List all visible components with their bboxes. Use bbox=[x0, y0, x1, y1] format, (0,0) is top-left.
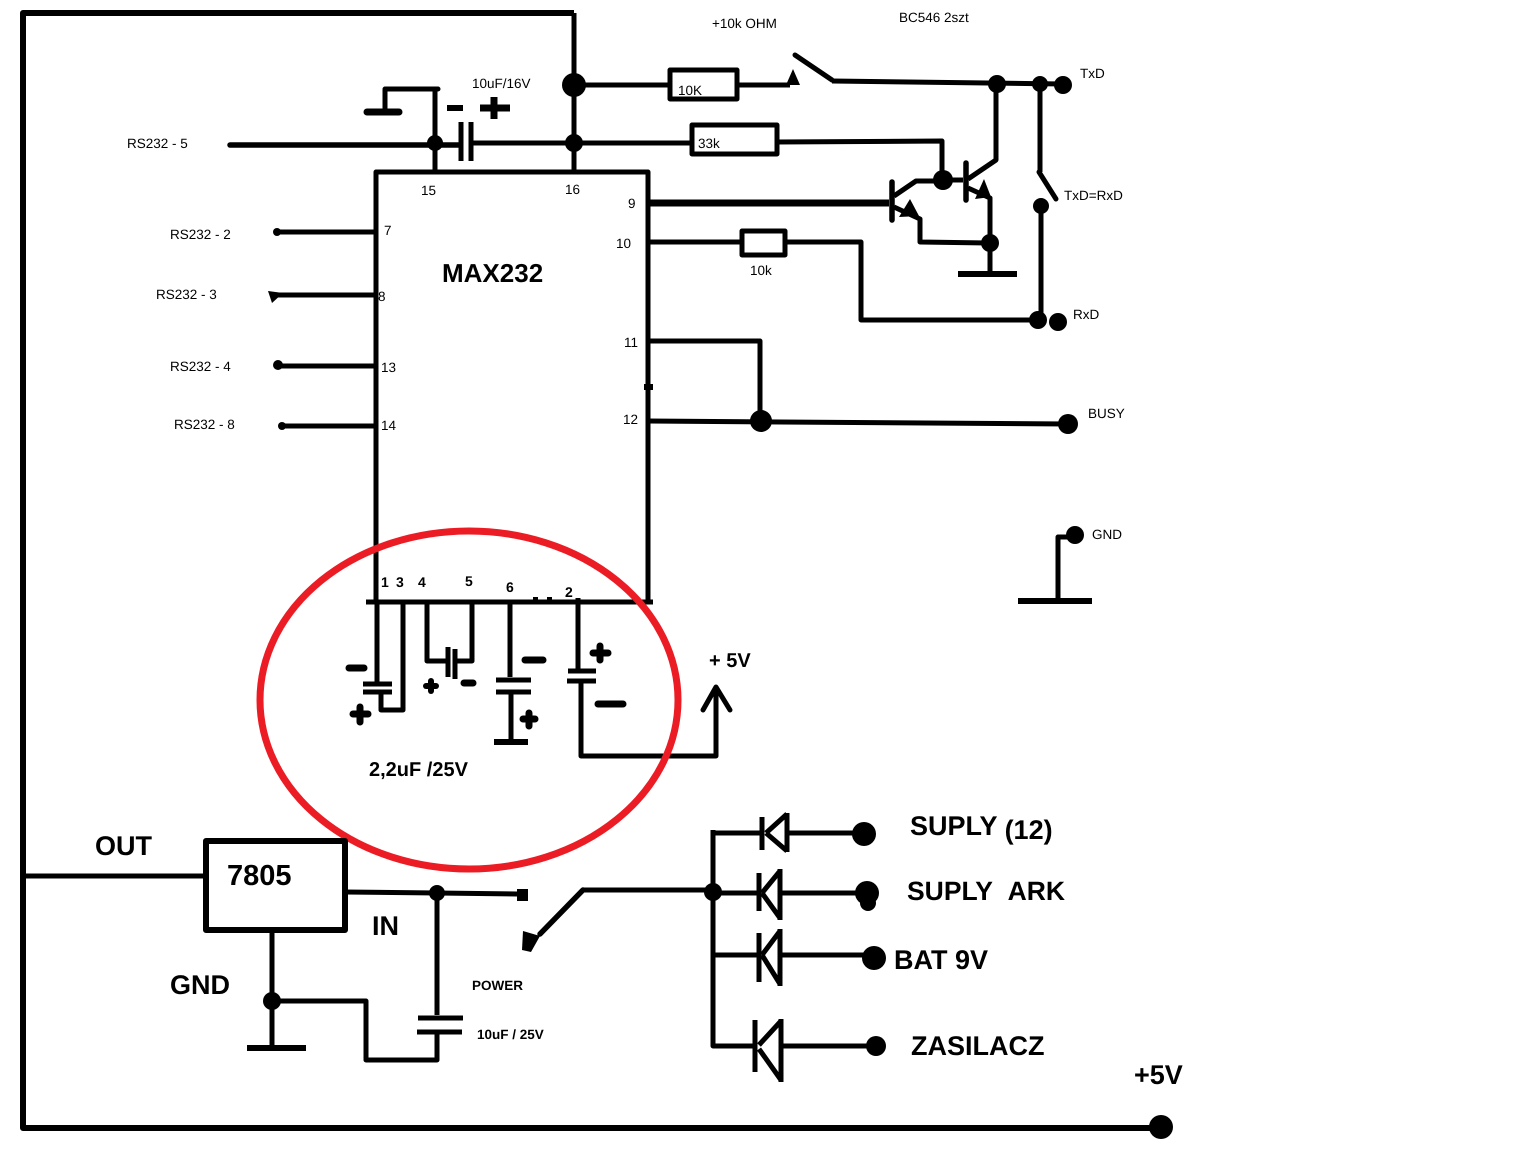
svg-text:14: 14 bbox=[381, 418, 397, 433]
wire border top-left-bottom bbox=[23, 13, 1160, 1128]
svg-text:1: 1 bbox=[381, 574, 389, 590]
wire 33k to Q2 base bbox=[777, 141, 942, 180]
red highlight ellipse bbox=[260, 531, 678, 869]
transistor Q1 BC546 bbox=[892, 181, 988, 243]
node base junction bbox=[933, 170, 953, 190]
svg-text:2: 2 bbox=[565, 584, 573, 600]
wire pin9 to Q1 base bbox=[648, 200, 889, 207]
node diode ladder junction bbox=[704, 883, 722, 901]
svg-text:3: 3 bbox=[396, 574, 404, 590]
svg-text:10: 10 bbox=[616, 236, 631, 251]
svg-text:BAT 9V: BAT 9V bbox=[894, 945, 988, 975]
node SUPLY (12) terminal bbox=[852, 822, 876, 846]
svg-text:+ 5V: + 5V bbox=[709, 650, 751, 672]
svg-text:5: 5 bbox=[465, 573, 473, 589]
transistor Q2 BC546 bbox=[966, 85, 996, 242]
node junction cap right bbox=[565, 134, 583, 152]
diode D4 bbox=[755, 1019, 868, 1082]
capacitor C5 10uF/16V bbox=[447, 76, 531, 161]
+5V arrow bbox=[703, 687, 730, 710]
node pin15 junction bbox=[427, 135, 443, 151]
wire 7805 GND pin bbox=[270, 930, 275, 1048]
svg-text:2,2uF /25V: 2,2uF /25V bbox=[369, 759, 469, 781]
svg-text:10uF/16V: 10uF/16V bbox=[472, 76, 531, 91]
wire pin16 vertical from top border bbox=[572, 13, 577, 171]
svg-text:RS232 - 5: RS232 - 5 bbox=[127, 136, 188, 151]
wire pin12 BUSY bbox=[648, 421, 1068, 424]
svg-text:SUPLY ARK: SUPLY ARK bbox=[907, 876, 1065, 906]
wire pin11 bbox=[648, 341, 760, 421]
ground 7805 bbox=[247, 1045, 306, 1051]
diode D1 bbox=[713, 813, 856, 852]
wire pin8 RS232-3 bbox=[274, 293, 376, 298]
switch S1 arm bbox=[795, 55, 832, 80]
svg-text:BUSY: BUSY bbox=[1088, 406, 1125, 421]
svg-text:16: 16 bbox=[565, 182, 580, 197]
node IN junction bbox=[429, 885, 445, 901]
svg-text:33k: 33k bbox=[698, 136, 720, 151]
svg-text:TxD=RxD: TxD=RxD bbox=[1064, 188, 1123, 203]
resistor R1 10K bbox=[670, 70, 737, 99]
svg-text:8: 8 bbox=[378, 289, 386, 304]
svg-text:9: 9 bbox=[628, 196, 636, 211]
svg-text:RS232 - 8: RS232 - 8 bbox=[174, 417, 235, 432]
svg-text:RS232 - 4: RS232 - 4 bbox=[170, 359, 231, 374]
node emitter junction bbox=[981, 234, 999, 252]
switch S1 contact arrow bbox=[786, 69, 800, 85]
wire base junction to Q2 bbox=[943, 178, 963, 183]
svg-text:IN: IN bbox=[372, 911, 399, 941]
svg-text:GND: GND bbox=[170, 970, 230, 1000]
svg-text:POWER: POWER bbox=[472, 978, 523, 993]
switch jumper top left bbox=[367, 89, 438, 112]
svg-text:4: 4 bbox=[418, 574, 426, 590]
node BUSY terminal bbox=[1058, 414, 1078, 434]
pin stub right edge bbox=[644, 384, 653, 390]
svg-text:BC546 2szt: BC546 2szt bbox=[899, 10, 969, 25]
capacitor C1 2.2uF pins 1-3 bbox=[349, 602, 403, 722]
wire pin13 RS232-4 bbox=[277, 364, 376, 369]
wire RS232-5 to cap bbox=[230, 142, 459, 148]
svg-text:10uF / 25V: 10uF / 25V bbox=[477, 1027, 544, 1042]
diode D2 bbox=[713, 869, 858, 920]
node GND right bbox=[1066, 526, 1084, 544]
switch TxD=RxD bbox=[1033, 85, 1056, 319]
svg-text:10K: 10K bbox=[678, 83, 702, 98]
wire pin10 to 10k bbox=[648, 240, 742, 245]
wire 10K to switch bbox=[737, 83, 790, 88]
resistor R2 33k bbox=[692, 125, 777, 154]
svg-text:GND: GND bbox=[1092, 527, 1122, 542]
svg-text:+5V: +5V bbox=[1134, 1060, 1183, 1090]
svg-text:15: 15 bbox=[421, 183, 436, 198]
node +5V terminal bbox=[1149, 1115, 1173, 1139]
node ZASILACZ terminal bbox=[866, 1036, 886, 1056]
node TxD collector junction bbox=[988, 75, 1006, 93]
svg-text:SUPLY (12): SUPLY (12) bbox=[910, 811, 1053, 845]
ground GND right symbol bbox=[1018, 537, 1092, 601]
svg-text:RS232 - 3: RS232 - 3 bbox=[156, 287, 217, 302]
wire pin14 RS232-8 bbox=[281, 424, 376, 429]
node TxD switch junction bbox=[1032, 76, 1048, 92]
wire cap right to pin16 bbox=[473, 141, 576, 146]
node RxD switch junction bbox=[1029, 311, 1047, 329]
svg-text:+10k OHM: +10k OHM bbox=[712, 16, 777, 31]
ground transistor emitters bbox=[958, 243, 1017, 274]
node RxD terminal bbox=[1049, 313, 1067, 331]
wire OUT bbox=[23, 874, 206, 879]
wire switch to diode ladder bbox=[582, 888, 713, 893]
svg-text:12: 12 bbox=[623, 412, 638, 427]
diode D3 bbox=[713, 929, 864, 986]
wire TxD bbox=[832, 81, 1063, 84]
wire 10k to RxD bbox=[785, 242, 1038, 320]
svg-text:6: 6 bbox=[506, 579, 514, 595]
wire pin16 to 33k bbox=[576, 141, 692, 146]
switch POWER arm bbox=[540, 890, 583, 934]
svg-text:RxD: RxD bbox=[1073, 307, 1099, 322]
wire pin7 RS232-2 bbox=[276, 230, 376, 235]
svg-text:OUT: OUT bbox=[95, 831, 153, 861]
regulator U2 7805 bbox=[206, 841, 345, 930]
wire V+ to 10K bbox=[574, 83, 670, 88]
capacitor C4 2.2uF pin 2 bbox=[533, 597, 716, 756]
node junction V+ bbox=[562, 73, 586, 97]
svg-text:ZASILACZ: ZASILACZ bbox=[911, 1031, 1044, 1061]
resistor R3 10k bbox=[742, 231, 785, 278]
node BAT 9V terminal bbox=[862, 946, 886, 970]
svg-text:TxD: TxD bbox=[1080, 66, 1105, 81]
node SUPLY ARK terminal bbox=[855, 881, 879, 905]
capacitor C3 2.2uF pin 6 bbox=[494, 602, 543, 742]
svg-text:7: 7 bbox=[384, 223, 392, 238]
IC U1 MAX232 bbox=[366, 172, 653, 602]
capacitor C2 2.2uF pins 4-5 bbox=[426, 602, 473, 691]
svg-text:11: 11 bbox=[624, 335, 638, 350]
svg-text:13: 13 bbox=[381, 360, 396, 375]
wire IN bbox=[345, 892, 437, 893]
capacitor C6 10uF/25V bbox=[276, 893, 463, 1060]
svg-text:10k: 10k bbox=[750, 263, 772, 278]
svg-text:MAX232: MAX232 bbox=[442, 258, 543, 288]
wire diode ladder vertical bbox=[713, 830, 754, 1046]
node TxD terminal bbox=[1054, 76, 1072, 94]
wire pin15 vertical bbox=[433, 87, 438, 172]
wire IN to switch contact bbox=[437, 893, 517, 894]
svg-text:RS232 - 2: RS232 - 2 bbox=[170, 227, 231, 242]
node GND junction bbox=[263, 992, 281, 1010]
node pin12 junction bbox=[750, 410, 772, 432]
svg-text:7805: 7805 bbox=[227, 860, 292, 892]
